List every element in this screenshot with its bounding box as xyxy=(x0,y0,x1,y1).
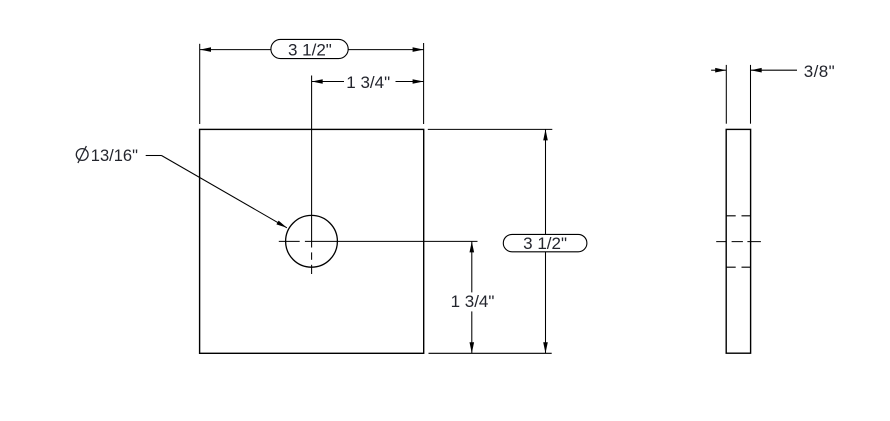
leader diagonal segment xyxy=(162,156,287,228)
dim 1 3/4 right: bottom arrowhead xyxy=(470,342,475,353)
leader arrowhead xyxy=(276,221,287,228)
dim 3 1/2 right: top extension line xyxy=(428,128,553,130)
dim 1 3/4 right: dimension line lower part xyxy=(471,311,473,353)
dim 3 1/2 top: right arrowhead xyxy=(413,47,424,52)
front view plate outline xyxy=(200,129,424,353)
vertical centerline upper segment xyxy=(311,76,313,248)
hole circle xyxy=(286,215,338,267)
svg-text:1 3/4": 1 3/4" xyxy=(346,73,390,92)
leader horizontal segment xyxy=(146,155,162,157)
hidden line upper (hole top edge) xyxy=(726,215,750,217)
dim 1 3/4 top: left arrowhead xyxy=(312,79,323,84)
dim 3 1/2 right: bottom arrowhead xyxy=(543,342,548,353)
dim 3 1/2 right: bottom extension line xyxy=(429,352,552,354)
dim 3/8: right leader tail xyxy=(751,69,797,71)
svg-text:3 1/2": 3 1/2" xyxy=(288,40,332,59)
dim 1 3/4 top: right arrowhead xyxy=(413,79,424,84)
svg-text:3/8": 3/8" xyxy=(804,62,835,81)
dim 3/8: right extension line xyxy=(750,65,752,124)
dim 1 3/4 right: dimension line upper part xyxy=(471,241,473,292)
dim 3 1/2 right: dimension line xyxy=(545,129,547,353)
dim 3 1/2 top: left arrowhead xyxy=(200,47,211,52)
dim 3/8: left outside tail xyxy=(711,69,726,71)
dim 3 1/2 top: dimension line xyxy=(200,49,424,51)
dim 1 3/4 top: dimension line right part xyxy=(396,81,424,83)
dim 3 1/2 right: balloon capsule xyxy=(503,234,587,251)
dim 3 1/2 top: balloon capsule xyxy=(271,39,348,58)
horizontal centerline left segment xyxy=(279,240,300,242)
dim 1 3/4 top: dimension line left part xyxy=(312,81,344,83)
dim 3 1/2 top: left extension line xyxy=(199,44,201,124)
dim 1 3/4 right: top arrowhead xyxy=(470,241,475,252)
horizontal centerline long segment xyxy=(305,240,478,242)
dim 3 1/2 right: top arrowhead xyxy=(543,129,548,140)
side view plate outline xyxy=(726,129,750,353)
vertical centerline lower segment xyxy=(311,265,313,274)
side view centerline xyxy=(716,241,761,243)
dim 3/8: right arrowhead xyxy=(751,68,762,73)
svg-text:3 1/2": 3 1/2" xyxy=(523,234,567,253)
svg-text:13/16": 13/16" xyxy=(91,147,138,165)
dim 3/8: left arrowhead xyxy=(715,68,726,73)
hidden line lower (hole bottom edge) xyxy=(726,266,750,268)
dim 3 1/2 top: right extension line xyxy=(423,43,425,124)
leader diameter symbol slash xyxy=(78,146,87,163)
vertical centerline short dash xyxy=(311,252,313,259)
dim 3/8: left extension line xyxy=(725,65,727,124)
leader diameter symbol circle xyxy=(76,149,88,161)
svg-text:1 3/4": 1 3/4" xyxy=(451,292,495,311)
